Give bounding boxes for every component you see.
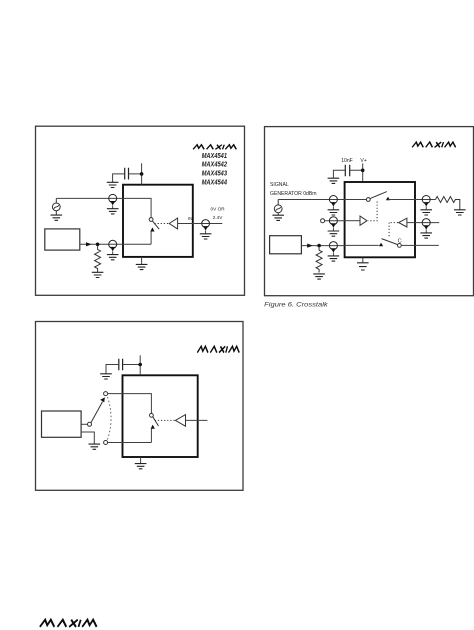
source box N3 [42,411,82,437]
ground under R2 [313,274,325,279]
wire cap left to ground fig6 [333,170,345,178]
junction dot fig7 V+ [138,363,142,367]
svg-text:2.4V: 2.4V [213,215,224,220]
wire switch bottom out to lower throw [108,442,152,444]
port symbol P6 [328,242,340,262]
wire T3 to right edge [407,222,415,224]
resistor R3 horizontal [436,197,460,210]
wire NC to IC middle row [325,220,345,222]
junction dot fig6 bottom [317,244,321,248]
driver triangle T1 [169,218,177,229]
dotted control line S1 [155,223,169,225]
wire cap right to V+ pin fig6 [350,163,363,182]
svg-text:IN: IN [188,216,192,221]
SPDT pole circle [88,422,92,426]
wire to switch S2 inside U2 [345,199,367,201]
ground under IC U2 [362,257,364,262]
resistor R2 [316,247,322,272]
figure border frame 7 [36,322,244,491]
port symbol P7 [420,196,432,216]
ground under cap fig1 [107,182,119,187]
junction dot fig1 bottom [96,243,100,247]
wire switch bottom to left box edge [123,243,151,245]
wire box N1 to junction [80,243,123,245]
driver triangle T2 [360,216,367,225]
network analyzer box N1 [45,229,80,250]
ground under IC U3 [140,457,142,463]
capacitor C1 [125,168,129,180]
wire generator to IC (top row) [56,197,123,199]
ground under generator V2 [272,215,284,220]
svg-text:MAX4543: MAX4543 [202,171,227,178]
svg-text:C: C [398,239,402,245]
wire cap left to ground [113,174,125,182]
svg-text:MAX4544: MAX4544 [202,179,227,186]
arrowhead on wire N2 [307,244,313,248]
arrowhead on wire N1 [86,242,92,246]
wire N3 to SPDT pole [81,423,87,425]
ground under cap fig7 [100,374,112,379]
wire left edge to switch S3 [345,244,379,246]
wire into T2 [345,220,360,222]
dotted control line S4 [155,419,175,421]
wire cap right to V+ pin fig7 [123,355,141,375]
MAXIM logo fig6 [412,142,456,147]
svg-text:SIGNAL: SIGNAL [270,182,289,188]
ground under R3 [454,210,466,215]
figure border frame 6 [265,127,474,296]
ground under IC U1 [141,257,143,264]
SPDT upper throw circle [104,392,108,396]
wire upper throw into IC [108,394,152,414]
port symbol P2 [107,240,119,259]
signal generator V2 [274,200,282,216]
port symbol P8 [420,219,432,239]
driver triangle T4 [175,415,185,427]
IC box U2 [345,182,415,257]
port symbol P1 [107,194,119,214]
wire cap left to ground fig7 [106,365,119,374]
MAXIM logo fig1 [193,145,237,150]
IC box U3 [123,375,198,457]
ground under generator V1 [51,215,63,220]
capacitor C2 10nF [345,165,349,177]
port symbol P3 (IN drive) [200,220,212,239]
ground under cap fig6 [328,178,340,183]
switch S4 [150,413,159,442]
wire generator to IC top row fig6 [278,199,344,201]
port symbol P4 [328,196,340,216]
dotted control S2 to T2 [368,202,377,221]
dotted control T3 to S3 [389,223,398,237]
svg-text:GENERATOR 0dBm: GENERATOR 0dBm [270,191,317,197]
signal generator V1 [52,198,60,215]
port symbol P5 [328,217,340,237]
NC terminal circle fig6 [321,219,325,223]
wire N3 lower stub to ground [81,432,94,444]
svg-text:0V OR: 0V OR [211,207,226,212]
switch S2 [366,192,415,202]
network analyzer box N2 [270,236,302,254]
wire cap right to V+ pin [129,163,142,185]
ground under R1 [92,272,104,277]
SPDT dashed travel arc [108,397,112,440]
svg-text:MAX4541: MAX4541 [202,153,227,160]
MAXIM logo fig7 [197,346,240,352]
svg-text:MAX4542: MAX4542 [202,162,227,169]
switch S3 [379,239,415,248]
switch S1 [149,218,159,245]
svg-text:Figure 6. Crosstalk: Figure 6. Crosstalk [264,301,328,308]
wire top row out to resistor [415,199,436,201]
resistor R1 [95,246,101,272]
IC box U1 [123,185,193,257]
wire S3 out right [415,244,439,246]
footer MAXIM logo [40,620,98,627]
wire box N2 to IC bottom row [301,245,344,247]
junction dot fig6 V+ [361,169,365,173]
wire T4 out right [186,419,208,421]
junction dot fig1 V+ [140,172,144,176]
ground under N3 stub [89,444,101,449]
SPDT lower throw circle [104,441,108,445]
capacitor C3 [119,359,123,371]
driver triangle T3 [399,218,407,227]
SPDT blade with arrow [91,402,103,423]
svg-text:10nF: 10nF [341,158,353,164]
wire inside box to switch S1 [123,198,151,217]
wire triangle to IN port [178,223,223,225]
wire middle row out fig6 [415,222,439,224]
figure border frame 1 [36,126,245,295]
svg-text:V+: V+ [360,158,366,164]
